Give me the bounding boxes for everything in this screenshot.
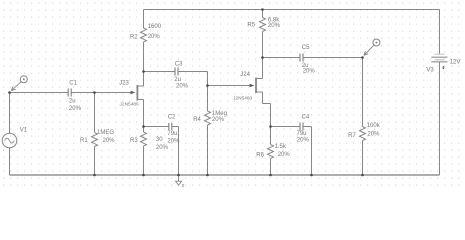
svg-text:C2: C2 [168,114,176,120]
svg-text:J24: J24 [240,72,250,78]
svg-text:R5: R5 [247,22,255,28]
svg-text:20%: 20% [156,145,169,151]
svg-text:1MEG: 1MEG [97,130,114,136]
svg-text:20%: 20% [148,34,161,40]
svg-text:V1: V1 [20,128,28,134]
svg-text:20%: 20% [268,23,281,29]
svg-text:R3: R3 [130,138,138,144]
svg-text:J2N5460: J2N5460 [233,96,253,102]
svg-text:J23: J23 [119,80,129,86]
svg-text:R1: R1 [80,138,88,144]
svg-text:20%: 20% [69,106,82,112]
svg-text:J2N5486: J2N5486 [120,101,140,107]
svg-text:R2: R2 [130,35,138,41]
svg-text:30: 30 [156,137,163,143]
svg-text:20%: 20% [367,132,380,138]
svg-text:R7: R7 [348,133,356,139]
svg-text:20%: 20% [297,137,310,143]
svg-text:R4: R4 [193,117,201,123]
svg-text:R6: R6 [256,153,264,159]
svg-text:20%: 20% [303,68,316,74]
svg-text:20%: 20% [103,138,116,144]
svg-text:100k: 100k [367,123,381,129]
svg-text:2u: 2u [174,77,181,83]
svg-text:C4: C4 [302,115,310,121]
svg-text:C3: C3 [175,62,183,68]
svg-text:20%: 20% [212,117,225,123]
svg-text:20%: 20% [278,152,291,158]
svg-text:79u: 79u [297,131,307,137]
svg-text:1Meg: 1Meg [212,111,227,117]
svg-text:1.5k: 1.5k [275,144,287,150]
svg-text:C1: C1 [69,80,77,86]
svg-text:V3: V3 [426,67,434,73]
svg-text:79u: 79u [167,131,177,137]
svg-text:20%: 20% [167,139,180,145]
svg-text:C5: C5 [302,45,310,51]
svg-text:2u: 2u [69,99,76,105]
svg-text:12V: 12V [450,59,461,65]
svg-text:1600: 1600 [148,24,162,30]
svg-text:20%: 20% [176,84,189,90]
